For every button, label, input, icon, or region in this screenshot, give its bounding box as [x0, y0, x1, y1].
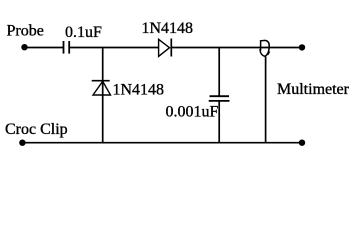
- capacitor C1 0.1uF right plate: [68, 41, 70, 54]
- capacitor C2 0.001uF top plate: [210, 95, 230, 97]
- svg-text:Croc Clip: Croc Clip: [5, 121, 68, 138]
- svg-text:Probe: Probe: [7, 23, 44, 40]
- terminal dot multimeter minus: [299, 140, 305, 146]
- diode D2 1N4148 shunt triangle: [93, 81, 111, 95]
- wire shunt branch vertical (top rail to bottom rail through D2): [102, 48, 104, 143]
- diode D1 1N4148 series triangle: [159, 39, 170, 56]
- wire bottom rail: [22, 142, 302, 144]
- wire top rail right (D1 to multimeter terminal): [171, 47, 300, 49]
- capacitor C2 0.001uF bottom plate: [209, 100, 230, 102]
- wire filter cap branch lower: [218, 101, 220, 143]
- diode D2 1N4148 shunt cathode bar: [92, 80, 110, 82]
- capacitor C1 0.1uF left plate: [63, 41, 65, 54]
- svg-text:1N4148: 1N4148: [142, 20, 194, 37]
- wire multimeter lead vertical: [265, 56, 267, 142]
- svg-text:0.1uF: 0.1uF: [65, 24, 102, 41]
- wire top rail left (probe dot to C1): [25, 47, 64, 49]
- terminal dot probe input: [21, 44, 27, 50]
- diode D1 1N4148 series cathode bar: [170, 39, 172, 57]
- crossover loop at multimeter lead: [260, 40, 269, 56]
- crossover loop hook: [268, 52, 270, 55]
- svg-text:0.001uF: 0.001uF: [166, 104, 219, 121]
- wire filter cap branch upper: [218, 48, 220, 97]
- terminal dot croc clip: [19, 140, 25, 146]
- wire top rail middle (C1 to D1): [69, 47, 158, 49]
- svg-text:1N4148: 1N4148: [113, 82, 165, 99]
- svg-text:Multimeter: Multimeter: [277, 81, 350, 98]
- terminal dot multimeter plus: [299, 44, 305, 50]
